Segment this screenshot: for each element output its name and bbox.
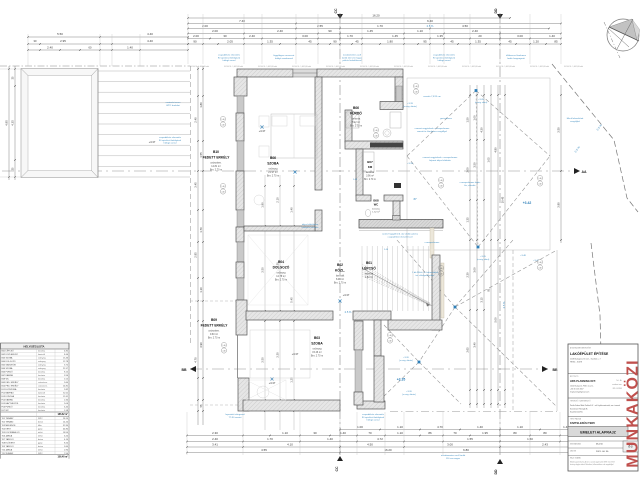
svg-text:kerámia: kerámia: [38, 379, 46, 381]
svg-text:+3.05: +3.05: [478, 99, 484, 101]
svg-text:szőnyeg: szőnyeg: [277, 272, 287, 275]
svg-text:Bm: 2.70 m: Bm: 2.70 m: [210, 169, 222, 172]
svg-text:szőnyeg: szőnyeg: [38, 361, 45, 363]
svg-text:4.85: 4.85: [5, 120, 9, 126]
svg-text:5.45: 5.45: [290, 297, 294, 303]
svg-text:4.25: 4.25: [11, 120, 15, 126]
svg-text:2.40: 2.40: [221, 125, 224, 127]
svg-text:95: 95: [423, 40, 427, 44]
svg-text:rozsdamentes acél: rozsdamentes acél: [343, 54, 362, 57]
svg-text:90 140 90 · 1,40/1,40 bukó: 90 140 90 · 1,40/1,40 bukó: [292, 66, 311, 68]
svg-text:ÉPÍTTETŐ: ÉPÍTTETŐ: [570, 375, 579, 378]
svg-text:Portik-Dobos Máté Zoltán E.V.: Portik-Dobos Máté Zoltán E.V. - okl. épí…: [570, 404, 620, 407]
svg-text:1.70: 1.70: [199, 227, 203, 233]
svg-text:1.45: 1.45: [367, 29, 373, 33]
svg-text:1118 Budapest, B. kert - Sasfi: 1118 Budapest, B. kert - Sasfiók u. 7.: [570, 358, 602, 361]
svg-text:10.45: 10.45: [501, 196, 505, 203]
svg-text:3.96 m²: 3.96 m²: [366, 174, 374, 177]
svg-text:90 140 90 · 1,40/1,40 bukó: 90 140 90 · 1,40/1,40 bukó: [190, 66, 209, 68]
svg-text:B09 FED. ERKÉLY: B09 FED. ERKÉLY: [2, 381, 20, 384]
svg-text:B06: B06: [270, 156, 276, 160]
svg-text:Bm: 2.70 m: Bm: 2.70 m: [311, 355, 323, 358]
svg-text:6.80: 6.80: [463, 448, 469, 452]
svg-text:110 cm magas: 110 cm magas: [446, 458, 461, 460]
svg-text:T01 TERASZ: T01 TERASZ: [2, 417, 15, 420]
svg-text:rozsdamentes acél korlát: rozsdamentes acél korlát: [441, 454, 466, 457]
svg-text:F05 HÁZT.HELYIS.: F05 HÁZT.HELYIS.: [2, 402, 20, 405]
svg-text:30: 30: [34, 39, 37, 43]
svg-text:90: 90: [333, 40, 337, 44]
svg-text:90 140 90 · 1,40/1,40 bukó: 90 140 90 · 1,40/1,40 bukó: [258, 66, 277, 68]
svg-text:3.45: 3.45: [194, 182, 198, 188]
svg-text:csapadékvíz elvezetéssel: csapadékvíz elvezetéssel: [388, 235, 413, 238]
svg-text:1.40: 1.40: [439, 180, 442, 182]
svg-text:HRS PLANNING KFT.: HRS PLANNING KFT.: [570, 379, 596, 383]
svg-text:4.30: 4.30: [480, 127, 484, 133]
svg-text:4.50: 4.50: [367, 443, 373, 447]
svg-text:4.55: 4.55: [261, 448, 267, 452]
svg-text:2.40: 2.40: [194, 117, 198, 123]
svg-text:4.72: 4.72: [377, 437, 383, 441]
svg-text:9.60 m²: 9.60 m²: [210, 333, 218, 336]
svg-text:+3.48: +3.48: [520, 255, 526, 257]
svg-text:2.05: 2.05: [227, 40, 233, 44]
svg-text:beton: beton: [38, 438, 43, 441]
svg-text:Szakmérnök Kft.: Szakmérnök Kft.: [570, 411, 583, 414]
svg-text:+3.47: +3.47: [533, 260, 539, 262]
svg-text:+36 30 123 4567: +36 30 123 4567: [570, 389, 584, 391]
svg-text:héjazat teljes felületén: héjazat teljes felületén: [429, 159, 451, 162]
svg-text:szőnyeg: szőnyeg: [38, 368, 45, 370]
svg-text:FEDETT ERKÉLY: FEDETT ERKÉLY: [203, 155, 231, 160]
svg-text:4.70: 4.70: [437, 425, 443, 429]
svg-text:szőnyeg: szőnyeg: [38, 365, 45, 367]
svg-text:90: 90: [193, 40, 197, 44]
svg-text:21.97: 21.97: [63, 368, 69, 370]
svg-text:Bm: 2.70 m: Bm: 2.70 m: [334, 282, 346, 285]
svg-text:B10 FED. ERKÉLY: B10 FED. ERKÉLY: [2, 385, 20, 388]
svg-text:B04 DOLGOZÓ: B04 DOLGOZÓ: [2, 360, 17, 363]
svg-text:7.40: 7.40: [239, 19, 245, 23]
svg-text:14.20: 14.20: [63, 421, 69, 423]
svg-text:pálcás kialakítással: pálcás kialakítással: [343, 59, 362, 62]
svg-text:30: 30: [12, 167, 15, 170]
svg-text:B06 SZOBA: B06 SZOBA: [2, 367, 14, 370]
svg-text:T10 JÁRDA: T10 JÁRDA: [2, 448, 13, 451]
svg-text:1.00: 1.00: [473, 115, 477, 121]
svg-text:3.80: 3.80: [557, 202, 561, 208]
svg-text:1.40: 1.40: [221, 186, 224, 188]
svg-text:20: 20: [478, 34, 482, 38]
svg-text:T09 TÁROLÓ: T09 TÁROLÓ: [2, 445, 15, 448]
svg-text:90 140 90 · 1,40/1,40 bukó: 90 140 90 · 1,40/1,40 bukó: [564, 66, 583, 68]
svg-text:44.80: 44.80: [63, 428, 69, 430]
svg-text:1.35: 1.35: [475, 40, 481, 44]
svg-text:állókorcos fémlemez: állókorcos fémlemez: [506, 54, 526, 57]
svg-text:1.80: 1.80: [387, 40, 393, 44]
svg-text:B06: B06: [353, 106, 359, 110]
svg-text:kerámia: kerámia: [38, 407, 46, 409]
svg-text:Bm: 2.70 m: Bm: 2.70 m: [275, 279, 287, 282]
svg-text:1024 Budapest, Fillér utca 11.: 1024 Budapest, Fillér utca 11.: [570, 385, 594, 388]
svg-text:mosott ác fémlemez szegéllyel: mosott ác fémlemez szegéllyel: [417, 130, 447, 133]
svg-text:korlát 110 cm magas: korlát 110 cm magas: [342, 56, 363, 59]
svg-text:1.45: 1.45: [392, 34, 398, 38]
svg-text:laminált: laminált: [336, 275, 345, 278]
svg-text:B07 KAMRA: B07 KAMRA: [2, 374, 14, 377]
svg-text:12.78: 12.78: [63, 361, 69, 363]
svg-text:EMELETI ALAPRAJZ: EMELETI ALAPRAJZ: [580, 431, 616, 435]
svg-text:LÉPCSŐ: LÉPCSŐ: [362, 266, 376, 271]
svg-text:fedés horganyzott: fedés horganyzott: [507, 57, 525, 60]
svg-text:DD: DD: [494, 8, 498, 14]
svg-text:térkő: térkő: [38, 434, 43, 437]
svg-text:SZOBA: SZOBA: [267, 162, 279, 166]
svg-text:térkő: térkő: [38, 431, 43, 434]
svg-text:F04 KAMRA: F04 KAMRA: [2, 399, 14, 402]
svg-text:90 140 90 · 1,40/1,40 bukó: 90 140 90 · 1,40/1,40 bukó: [394, 66, 413, 68]
svg-text:12.78 m²: 12.78 m²: [276, 275, 286, 278]
svg-text:T04 KERT: T04 KERT: [2, 428, 12, 430]
svg-text:Bm: 2.70 m: Bm: 2.70 m: [350, 125, 362, 128]
svg-text:2.30: 2.30: [212, 431, 218, 435]
svg-text:156.40 m²: 156.40 m²: [58, 455, 69, 459]
svg-text:szegélykő: szegélykő: [570, 121, 581, 123]
svg-text:16.20: 16.20: [384, 448, 392, 452]
svg-text:2.40: 2.40: [47, 46, 53, 50]
svg-text:90 140 90 · 1,40/1,40 bukó: 90 140 90 · 1,40/1,40 bukó: [462, 66, 481, 68]
svg-text:1.40: 1.40: [221, 119, 224, 121]
svg-text:B02 KÖZLEKEDŐ: B02 KÖZLEKEDŐ: [2, 353, 19, 356]
svg-text:HRSZ.: 45678: HRSZ.: 45678: [570, 362, 582, 364]
svg-text:laminált: laminált: [38, 353, 45, 356]
svg-text:2.30: 2.30: [466, 272, 470, 278]
svg-text:B04: B04: [278, 260, 284, 264]
svg-text:FÜRDŐ: FÜRDŐ: [350, 111, 362, 116]
svg-text:1.40: 1.40: [290, 207, 294, 213]
svg-text:hófogó sorral: hófogó sorral: [438, 59, 451, 62]
svg-text:kerámia: kerámia: [38, 403, 46, 405]
svg-text:3.15: 3.15: [480, 297, 484, 303]
svg-text:1.55: 1.55: [467, 437, 473, 441]
svg-text:RAJZ SZÁMA: RAJZ SZÁMA: [570, 457, 581, 460]
svg-text:térkő: térkő: [38, 448, 43, 451]
svg-text:F01 ELŐSZOBA: F01 ELŐSZOBA: [2, 388, 17, 391]
svg-text:90 140 90 · 1,40/1,40 bukó: 90 140 90 · 1,40/1,40 bukó: [530, 66, 549, 68]
svg-text:4.40: 4.40: [147, 32, 153, 36]
svg-text:B05 GARDRÓB: B05 GARDRÓB: [2, 364, 17, 367]
svg-text:T02 TERASZ: T02 TERASZ: [2, 420, 15, 423]
svg-text:beton: beton: [38, 445, 43, 448]
svg-text:hrsplanning@gmail.com: hrsplanning@gmail.com: [570, 392, 590, 394]
svg-text:90 140 90 · 1,40/1,40 bukó: 90 140 90 · 1,40/1,40 bukó: [224, 66, 243, 68]
svg-text:szőnyeg: szőnyeg: [313, 348, 323, 351]
svg-text:3.41: 3.41: [212, 443, 218, 447]
svg-text:90 spirálcső befolyóval: 90 spirálcső befolyóval: [433, 56, 456, 59]
svg-text:2.10: 2.10: [276, 197, 280, 203]
svg-text:12.41: 12.41: [63, 396, 69, 398]
svg-text:B03: B03: [314, 336, 320, 340]
svg-text:+3.37: +3.37: [343, 293, 350, 297]
svg-text:4.10: 4.10: [287, 443, 293, 447]
svg-text:TT-30 szerint: TT-30 szerint: [229, 416, 242, 419]
svg-text:szuterén terasz: szuterén terasz: [166, 101, 181, 104]
svg-text:(v.szig. dönt): (v.szig. dönt): [477, 258, 490, 261]
svg-text:DOLGOZÓ: DOLGOZÓ: [273, 265, 290, 270]
svg-text:szőnyeg: szőnyeg: [269, 168, 279, 171]
svg-text:1.40: 1.40: [538, 178, 541, 180]
svg-text:90 140 90 · 1,40/1,40 bukó: 90 140 90 · 1,40/1,40 bukó: [496, 66, 515, 68]
svg-text:kerámia: kerámia: [352, 118, 361, 121]
svg-text:30: 30: [223, 34, 227, 38]
svg-text:hófogó sorral: hófogó sorral: [223, 59, 236, 62]
svg-text:2.5 %: 2.5 %: [573, 145, 581, 154]
svg-text:kerámia: kerámia: [366, 171, 375, 174]
svg-text:1.40: 1.40: [127, 46, 133, 50]
svg-text:tet. elhelyezéséhez: tet. elhelyezéséhez: [416, 274, 435, 277]
svg-text:14.81 m²: 14.81 m²: [211, 165, 221, 168]
svg-text:1.50: 1.50: [527, 437, 533, 441]
svg-text:F06 FÜRDŐ: F06 FÜRDŐ: [2, 406, 14, 409]
svg-text:21.97 m²: 21.97 m²: [268, 171, 278, 174]
svg-text:4.70: 4.70: [194, 357, 198, 363]
svg-text:1.10: 1.10: [417, 29, 423, 33]
svg-text:4.80: 4.80: [494, 147, 498, 153]
svg-text:2.65: 2.65: [466, 347, 470, 353]
svg-text:2.40: 2.40: [249, 34, 255, 38]
svg-text:2021. 04. 30.: 2021. 04. 30.: [596, 451, 609, 453]
svg-text:2.95: 2.95: [60, 39, 66, 43]
svg-text:Mack lekerekített: Mack lekerekített: [567, 117, 584, 120]
svg-text:kerámia: kerámia: [38, 389, 46, 391]
svg-text:15.46: 15.46: [63, 358, 69, 360]
svg-text:55: 55: [200, 404, 203, 407]
svg-text:2.5 %: 2.5 %: [595, 123, 603, 132]
svg-text:kerámia: kerámia: [38, 351, 46, 353]
svg-text:+3.37: +3.37: [149, 140, 156, 144]
svg-text:2.00: 2.00: [193, 34, 199, 38]
svg-text:81: 81: [487, 288, 491, 291]
svg-text:1.40: 1.40: [374, 130, 377, 132]
svg-text:8.46 m²: 8.46 m²: [336, 278, 344, 281]
svg-text:csapadékvíz elvezetés: csapadékvíz elvezetés: [433, 54, 456, 57]
svg-text:3.00: 3.00: [302, 34, 308, 38]
svg-text:2.40: 2.40: [439, 186, 442, 188]
svg-text:15.46 m²: 15.46 m²: [312, 351, 322, 354]
svg-text:+3.35: +3.35: [397, 378, 406, 382]
svg-text:BB: BB: [181, 368, 187, 372]
svg-text:+3.37: +3.37: [269, 381, 276, 385]
svg-text:45°: 45°: [413, 198, 417, 201]
svg-text:2.40: 2.40: [277, 29, 283, 33]
svg-text:KÖZL.: KÖZL.: [335, 269, 345, 273]
svg-text:FEDETT ERKÉLY: FEDETT ERKÉLY: [201, 323, 229, 328]
svg-text:lambéria burkolat: lambéria burkolat: [302, 226, 319, 229]
svg-text:SZOBA: SZOBA: [311, 342, 323, 346]
svg-text:80: 80: [543, 431, 547, 435]
svg-text:csúszásm.: csúszásm.: [38, 386, 48, 388]
svg-text:lapostető rétegrend: lapostető rétegrend: [226, 413, 246, 416]
svg-text:teljes falfelületen: teljes falfelületen: [302, 223, 319, 226]
svg-text:3.00: 3.00: [473, 267, 477, 273]
svg-text:1.35: 1.35: [466, 217, 470, 223]
svg-text:90 140 90 · 1,40/1,40 bukó: 90 140 90 · 1,40/1,40 bukó: [326, 66, 345, 68]
svg-text:4.40: 4.40: [147, 39, 153, 43]
svg-text:B06 FÜRDŐ: B06 FÜRDŐ: [2, 371, 14, 374]
svg-text:1.40: 1.40: [384, 249, 389, 251]
svg-text:2.40: 2.40: [222, 351, 225, 353]
svg-text:1.80: 1.80: [199, 102, 203, 108]
svg-text:hófogó sorral: hófogó sorral: [164, 142, 177, 145]
svg-text:A MUNKA MEGNEVEZÉSE: A MUNKA MEGNEVEZÉSE: [570, 347, 592, 350]
svg-text:1.70: 1.70: [347, 34, 353, 38]
svg-text:TERVEZŐ / SZERKESZTŐ: TERVEZŐ / SZERKESZTŐ: [570, 400, 591, 403]
svg-text:(v.szig. döntv): (v.szig. döntv): [402, 393, 416, 396]
svg-text:16.20: 16.20: [372, 14, 380, 18]
svg-text:1.40: 1.40: [222, 345, 225, 347]
svg-text:beton: beton: [38, 420, 43, 423]
svg-text:1.70: 1.70: [267, 437, 273, 441]
svg-text:cserepeslemez fedés: cserepeslemez fedés: [460, 181, 482, 184]
svg-text:2.40: 2.40: [538, 268, 541, 270]
svg-text:1.50: 1.50: [466, 117, 470, 123]
svg-text:CC: CC: [335, 466, 339, 472]
svg-text:1.25: 1.25: [290, 377, 294, 383]
svg-text:3.50: 3.50: [261, 357, 265, 363]
svg-text:1.70: 1.70: [377, 24, 383, 28]
svg-text:Bm: 2.70 m: Bm: 2.70 m: [267, 175, 279, 178]
svg-text:csapadékvíz elvezetés: csapadékvíz elvezetés: [218, 54, 241, 57]
svg-text:szünüf nagyteherb. alu védőcsa: szünüf nagyteherb. alu védőcsatorna: [382, 233, 419, 236]
svg-text:1.40: 1.40: [538, 262, 541, 264]
svg-text:2.40: 2.40: [212, 437, 218, 441]
svg-text:1.10: 1.10: [282, 431, 288, 435]
svg-text:MUNKASZÁM: MUNKASZÁM: [570, 443, 581, 446]
svg-text:B02: B02: [337, 263, 343, 267]
svg-text:2.40: 2.40: [472, 29, 478, 33]
svg-text:86: 86: [428, 431, 432, 435]
svg-text:szarufa 7,5/15 cm: szarufa 7,5/15 cm: [423, 95, 441, 98]
svg-text:1.40: 1.40: [549, 34, 555, 38]
svg-text:laminált: laminált: [38, 392, 45, 395]
svg-text:T03 MEDENCE: T03 MEDENCE: [2, 425, 17, 427]
svg-text:(v.szig. döntv): (v.szig. döntv): [403, 105, 417, 108]
svg-text:1 db PH-fé. ill. kibúvóablak: 1 db PH-fé. ill. kibúvóablak: [412, 272, 439, 274]
svg-text:hófogó sorral: hófogó sorral: [367, 419, 380, 422]
svg-text:függőleges ereszcsat.: függőleges ereszcsat.: [273, 54, 295, 57]
svg-text:90 spirálcső befolyóval: 90 spirálcső befolyóval: [159, 139, 182, 142]
svg-text:1.35: 1.35: [267, 40, 273, 44]
svg-text:1.40: 1.40: [477, 425, 483, 429]
svg-text:kerámia: kerámia: [372, 208, 381, 211]
svg-text:CC: CC: [334, 8, 338, 14]
svg-text:WPC: WPC: [38, 418, 43, 420]
svg-text:T06 JÁRDA: T06 JÁRDA: [2, 434, 13, 437]
svg-text:3.30: 3.30: [276, 352, 280, 358]
svg-text:T07 TÁROLÓ: T07 TÁROLÓ: [2, 438, 15, 441]
svg-text:3.00: 3.00: [517, 34, 523, 38]
svg-text:80: 80: [513, 431, 517, 435]
svg-text:45: 45: [355, 40, 359, 44]
svg-text:B09: B09: [211, 318, 217, 322]
svg-text:T05 KOCSIBEÁLLÓ: T05 KOCSIBEÁLLÓ: [2, 431, 20, 434]
svg-text:szakmai vez.: szakmai vez.: [612, 384, 622, 386]
svg-text:csapadékvíz elvezetés: csapadékvíz elvezetés: [362, 413, 385, 416]
svg-text:90 140 90 · 1,40/1,40 bukó: 90 140 90 · 1,40/1,40 bukó: [360, 66, 379, 68]
svg-text:B07: B07: [367, 160, 373, 164]
svg-text:4.50: 4.50: [462, 24, 468, 28]
svg-text:2.40: 2.40: [439, 274, 442, 276]
svg-text:+3.42: +3.42: [523, 201, 532, 205]
svg-text:B03 SZOBA: B03 SZOBA: [2, 357, 14, 360]
svg-text:3.50: 3.50: [261, 267, 265, 273]
svg-text:M=1:50: M=1:50: [596, 444, 604, 446]
svg-text:2.5 %: 2.5 %: [502, 301, 506, 308]
svg-text:1.80: 1.80: [261, 202, 265, 208]
svg-text:B08 WC: B08 WC: [2, 379, 10, 381]
svg-text:1.40: 1.40: [327, 437, 333, 441]
svg-text:2.5 %: 2.5 %: [345, 310, 352, 314]
svg-text:2.40: 2.40: [221, 192, 224, 194]
svg-text:85: 85: [554, 40, 558, 44]
svg-text:2.00: 2.00: [212, 29, 218, 33]
svg-text:8.12 m²: 8.12 m²: [352, 121, 360, 124]
svg-text:É/1 01-2345: É/1 01-2345: [613, 387, 622, 390]
svg-text:28.10: 28.10: [63, 418, 69, 420]
svg-text:2.40: 2.40: [374, 136, 377, 138]
svg-text:3.90: 3.90: [199, 342, 203, 348]
svg-text:5.00: 5.00: [494, 317, 498, 323]
svg-text:+3.20: +3.20: [406, 391, 412, 393]
svg-text:1.40: 1.40: [340, 431, 346, 435]
svg-text:F03 KONYHA: F03 KONYHA: [2, 395, 15, 398]
svg-text:csúszásm.: csúszásm.: [38, 382, 48, 384]
svg-text:+3.20: +3.20: [403, 357, 409, 359]
svg-text:+3.33: +3.33: [407, 163, 413, 165]
svg-text:1.40: 1.40: [439, 268, 442, 270]
svg-text:léc, ellenléc: léc, ellenléc: [464, 185, 476, 187]
svg-text:B01: B01: [366, 261, 372, 265]
svg-text:18.50: 18.50: [63, 432, 69, 434]
svg-text:gerinclemez: gerinclemez: [440, 117, 452, 120]
svg-text:3.50: 3.50: [557, 127, 561, 133]
svg-text:45: 45: [508, 40, 512, 44]
svg-text:(v.szig. döntv): (v.szig. döntv): [399, 359, 413, 362]
svg-text:F02 NAPPALI: F02 NAPPALI: [2, 392, 15, 395]
svg-text:45: 45: [308, 40, 312, 44]
svg-text:(v.szig. dönt): (v.szig. dönt): [475, 101, 488, 104]
svg-text:32.30: 32.30: [63, 425, 69, 427]
svg-text:csapadékvíz elvezetés: csapadékvíz elvezetés: [159, 136, 182, 139]
svg-text:B10: B10: [213, 150, 219, 154]
svg-text:kerámia: kerámia: [38, 400, 46, 402]
svg-text:LAKÓÉPÜLET ÉPÍTÉSE: LAKÓÉPÜLET ÉPÍTÉSE: [570, 351, 609, 356]
svg-text:2.40: 2.40: [414, 92, 417, 94]
svg-text:14.81: 14.81: [63, 386, 69, 388]
svg-text:90 spirálcső befolyóval: 90 spirálcső befolyóval: [362, 416, 385, 419]
svg-text:1.40: 1.40: [388, 335, 391, 337]
svg-text:2.95: 2.95: [194, 252, 198, 258]
svg-text:kerámia: kerámia: [38, 375, 46, 377]
svg-text:B01 LÉPCSŐ: B01 LÉPCSŐ: [2, 350, 15, 353]
svg-text:kerámia: kerámia: [365, 273, 374, 276]
svg-text:cement nagyteherb. cserepeslem: cement nagyteherb. cserepeslemez: [423, 156, 458, 159]
svg-text:szőnyeg: szőnyeg: [38, 358, 45, 360]
svg-text:Tel.: Bt.: Tel.: Bt.: [616, 379, 622, 382]
svg-text:2.00: 2.00: [466, 167, 470, 173]
svg-text:DÁTUM: DÁTUM: [570, 450, 577, 453]
svg-text:1.10: 1.10: [397, 431, 403, 435]
